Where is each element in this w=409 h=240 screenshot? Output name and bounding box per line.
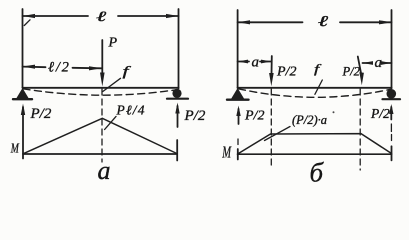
l/2 arrowhead right (a): [89, 66, 102, 70]
dashes below left reaction (b): [237, 139, 239, 145]
svg-text:P/2: P/2: [342, 65, 360, 79]
f leader slash (b): [315, 80, 322, 94]
beam (b): [238, 87, 392, 89]
svg-text:P/2: P/2: [370, 106, 390, 121]
dimension arrowhead left (a): [23, 14, 36, 18]
svg-text:б: б: [310, 158, 325, 185]
roller support right (a): [172, 89, 181, 98]
dimension line a right (b): [363, 62, 372, 64]
label l (a): [96, 9, 107, 24]
baseline end tick right (a): [176, 140, 178, 161]
svg-text:P/2: P/2: [276, 65, 296, 80]
(P/2)a leader (b): [265, 127, 291, 141]
reaction arrow left P/2 (b): [238, 109, 240, 124]
label f (a): [123, 64, 133, 79]
svg-text:P/2: P/2: [30, 106, 52, 122]
reaction arrow left P/2 (a): [22, 107, 24, 159]
label M (a): [10, 141, 20, 156]
moment triangle (a): [23, 118, 177, 154]
moment baseline (a): [23, 153, 177, 155]
svg-text:f: f: [123, 64, 133, 79]
deflection curve dashed (b): [239, 89, 391, 97]
beam (a): [23, 87, 179, 89]
svg-text:f: f: [314, 63, 322, 76]
pin support left (a): [17, 88, 29, 98]
svg-text:(P/2)·a: (P/2)·a: [292, 113, 327, 127]
svg-text:P/2: P/2: [244, 109, 264, 124]
svg-text:M: M: [10, 141, 20, 156]
svg-text:a: a: [252, 55, 260, 71]
dimension line a left (b): [238, 61, 249, 63]
tick slash under left arrow (a): [24, 20, 30, 26]
centre dashed line (a): [101, 89, 103, 162]
load arrow P/2 right (b): [358, 57, 361, 74]
extension line right (b): [391, 10, 393, 89]
label f (b): [314, 63, 322, 76]
label M (b): [222, 143, 232, 162]
svg-text:а: а: [98, 156, 111, 184]
svg-text:ℓ: ℓ: [318, 14, 329, 30]
extension line left (a): [22, 9, 24, 88]
svg-text:a: a: [375, 55, 383, 71]
noise speck: [333, 111, 335, 113]
moment baseline (b): [238, 153, 392, 155]
dimension line l (b): [238, 21, 303, 23]
svg-text:ℓ/2: ℓ/2: [48, 59, 71, 75]
Pl/4 leader slash (a): [105, 116, 116, 129]
deflection curve dashed (a): [23, 89, 176, 95]
reaction arrow right P/2 (b): [390, 107, 392, 120]
pin support left (b): [231, 88, 244, 99]
roller support right (b): [387, 89, 397, 99]
dimension line l/2 (a): [23, 66, 46, 69]
reaction arrow right P/2 (a): [177, 106, 179, 127]
dimension arrowhead right (a): [166, 14, 179, 18]
svg-text:P: P: [108, 35, 118, 50]
load arrow P (a): [101, 40, 103, 74]
dimension arrowhead right (b): [379, 20, 392, 24]
extension line right (a): [178, 9, 180, 89]
label l (b): [318, 14, 329, 30]
svg-text:M: M: [222, 143, 232, 162]
dashed load line right (b): [359, 89, 361, 170]
load arrow P/2 left (b): [271, 56, 273, 74]
moment trapezoid (b): [238, 134, 392, 154]
dimension line l (a): [23, 15, 89, 17]
svg-text:P/2: P/2: [184, 108, 206, 124]
dimension arrowhead left (b): [238, 20, 250, 24]
dashes below right reaction (b): [390, 124, 392, 132]
extension line left (b): [237, 10, 239, 88]
svg-text:Pℓ/4: Pℓ/4: [116, 103, 146, 118]
dashed load line left (b): [270, 89, 272, 168]
f leader slash (a): [103, 78, 121, 91]
svg-text:ℓ: ℓ: [96, 9, 107, 24]
l/2 arrowhead left (a): [23, 65, 36, 69]
